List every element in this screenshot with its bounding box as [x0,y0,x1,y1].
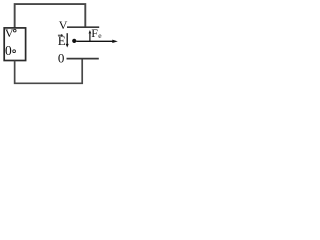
trajectory arrow (right) [76,40,118,43]
E field direction arrow (down) [66,33,69,47]
svg-text:0: 0 [58,51,65,66]
electric force arrow Fe (up) [89,30,92,41]
svg-text:F: F [91,26,98,40]
svg-text:V: V [59,18,68,32]
terminal 0 circle [13,50,16,53]
charge dot [72,39,76,43]
top plate (V) [67,26,99,28]
wire from source box bottom terminal to bottom plate [15,59,83,84]
terminal V circle [13,29,16,32]
vector arrow over E [58,34,64,36]
voltage source box [4,28,25,61]
svg-text:e: e [98,31,102,40]
wire from source box top terminal to top plate [15,4,86,28]
bottom plate (0) [67,58,99,60]
svg-text:0: 0 [5,43,12,58]
svg-text:V: V [5,26,14,40]
